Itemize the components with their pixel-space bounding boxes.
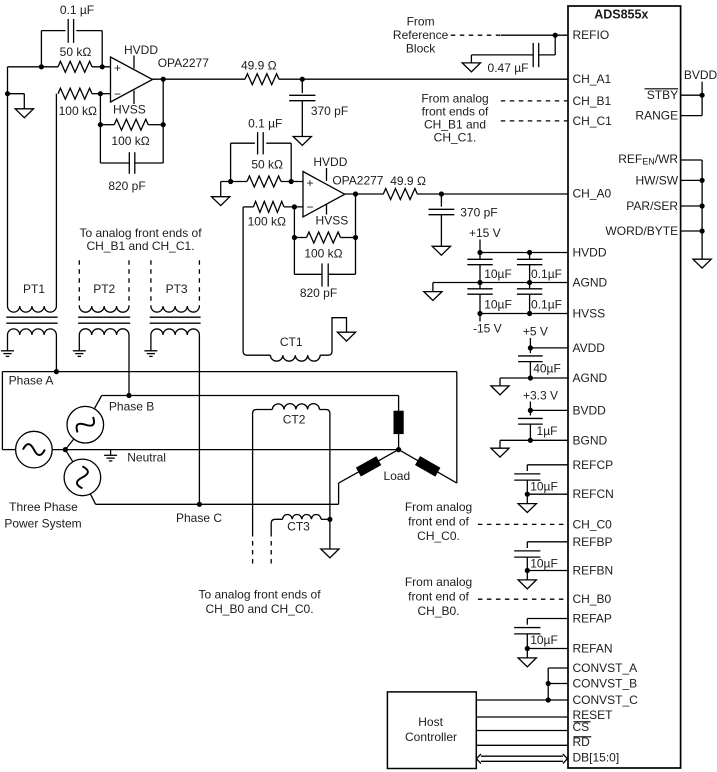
svg-text:Power System: Power System — [4, 517, 81, 531]
svg-text:OPA2277: OPA2277 — [158, 56, 209, 70]
svg-text:REFCN: REFCN — [573, 487, 614, 501]
svg-text:HVSS: HVSS — [316, 214, 349, 228]
svg-text:+: + — [306, 176, 313, 190]
svg-text:+: + — [114, 61, 121, 75]
svg-text:CH_C0.: CH_C0. — [417, 529, 460, 543]
svg-text:370 pF: 370 pF — [311, 104, 348, 118]
svg-text:From analog: From analog — [421, 92, 488, 106]
svg-text:CONVST_A: CONVST_A — [573, 661, 638, 675]
svg-text:10µF: 10µF — [530, 556, 558, 570]
svg-text:Load: Load — [383, 469, 410, 483]
svg-text:49.9 Ω: 49.9 Ω — [241, 59, 277, 73]
svg-text:HVSS: HVSS — [573, 307, 606, 321]
svg-text:50 kΩ: 50 kΩ — [251, 158, 283, 172]
svg-text:CH_A1: CH_A1 — [573, 72, 612, 86]
svg-text:From analog: From analog — [405, 500, 472, 514]
svg-text:CONVST_B: CONVST_B — [573, 677, 638, 691]
svg-text:To analog front ends of: To analog front ends of — [198, 587, 321, 601]
svg-text:Phase C: Phase C — [176, 511, 222, 525]
svg-text:REFBP: REFBP — [573, 535, 613, 549]
svg-text:PT3: PT3 — [166, 282, 188, 296]
svg-text:RANGE: RANGE — [635, 109, 678, 123]
svg-text:From: From — [407, 14, 435, 28]
svg-text:CH_B1 and CH_C1.: CH_B1 and CH_C1. — [86, 239, 194, 253]
svg-text:Three Phase: Three Phase — [9, 500, 78, 514]
svg-text:100 kΩ: 100 kΩ — [111, 134, 149, 148]
svg-text:Phase B: Phase B — [109, 400, 154, 414]
svg-text:AGND: AGND — [573, 371, 608, 385]
svg-text:−: − — [306, 200, 313, 214]
svg-text:100 kΩ: 100 kΩ — [304, 246, 342, 260]
svg-text:820 pF: 820 pF — [300, 286, 337, 300]
svg-text:50 kΩ: 50 kΩ — [60, 45, 92, 59]
svg-text:HVDD: HVDD — [573, 246, 607, 260]
svg-text:100 kΩ: 100 kΩ — [59, 104, 97, 118]
svg-text:REFCP: REFCP — [573, 458, 614, 472]
svg-text:CH_C1.: CH_C1. — [434, 130, 477, 144]
svg-text:Neutral: Neutral — [127, 450, 166, 464]
svg-text:CH_B0.: CH_B0. — [417, 604, 459, 618]
svg-text:REFIO: REFIO — [573, 28, 610, 42]
svg-text:0.1µF: 0.1µF — [531, 298, 562, 312]
svg-text:CH_C1: CH_C1 — [573, 114, 613, 128]
svg-text:CT1: CT1 — [280, 335, 303, 349]
svg-text:+15 V: +15 V — [469, 226, 501, 240]
svg-text:Block: Block — [406, 41, 436, 55]
svg-text:0.47 µF: 0.47 µF — [488, 61, 529, 75]
svg-text:Reference: Reference — [393, 28, 449, 42]
svg-text:100 kΩ: 100 kΩ — [248, 215, 286, 229]
svg-text:49.9 Ω: 49.9 Ω — [390, 174, 426, 188]
svg-text:REFBN: REFBN — [573, 564, 614, 578]
svg-text:WORD/BYTE: WORD/BYTE — [605, 224, 678, 238]
svg-text:370 pF: 370 pF — [460, 205, 497, 219]
svg-text:HW/SW: HW/SW — [635, 173, 678, 187]
svg-text:CH_B1 and: CH_B1 and — [424, 117, 486, 131]
svg-text:CH_B1: CH_B1 — [573, 94, 612, 108]
svg-text:CT2: CT2 — [283, 413, 306, 427]
svg-text:Phase A: Phase A — [9, 373, 54, 387]
svg-text:10µF: 10µF — [530, 479, 558, 493]
svg-text:10µF: 10µF — [484, 267, 512, 281]
svg-text:PT1: PT1 — [23, 282, 45, 296]
svg-text:STBY: STBY — [647, 88, 678, 102]
svg-text:front end of: front end of — [408, 589, 469, 603]
svg-text:−: − — [114, 87, 121, 101]
svg-text:OPA2277: OPA2277 — [332, 173, 383, 187]
svg-text:HVSS: HVSS — [113, 103, 146, 117]
svg-text:820 pF: 820 pF — [108, 179, 145, 193]
svg-text:REFAP: REFAP — [573, 612, 612, 626]
svg-text:REFAN: REFAN — [573, 642, 613, 656]
svg-text:HVDD: HVDD — [313, 155, 347, 169]
svg-text:CH_A0: CH_A0 — [573, 187, 612, 201]
svg-text:BVDD: BVDD — [684, 68, 717, 82]
svg-text:ADS855x: ADS855x — [594, 8, 648, 22]
svg-text:Host: Host — [418, 715, 443, 729]
svg-text:HVDD: HVDD — [124, 43, 158, 57]
svg-text:40µF: 40µF — [533, 361, 561, 375]
svg-text:0.1 µF: 0.1 µF — [248, 117, 282, 131]
svg-text:From analog: From analog — [405, 575, 472, 589]
svg-text:front end of: front end of — [408, 515, 469, 529]
svg-text:DB[15:0]: DB[15:0] — [573, 751, 620, 765]
svg-text:1µF: 1µF — [537, 424, 558, 438]
svg-text:CONVST_C: CONVST_C — [573, 693, 639, 707]
svg-text:BGND: BGND — [573, 433, 608, 447]
svg-text:10µF: 10µF — [530, 633, 558, 647]
svg-text:+3.3 V: +3.3 V — [523, 388, 558, 402]
svg-text:+5 V: +5 V — [523, 325, 548, 339]
svg-text:Controller: Controller — [405, 730, 457, 744]
svg-text:-15 V: -15 V — [473, 321, 502, 335]
svg-text:CT3: CT3 — [287, 520, 310, 534]
svg-text:CH_B0: CH_B0 — [573, 592, 612, 606]
svg-text:CH_B0 and CH_C0.: CH_B0 and CH_C0. — [205, 602, 313, 616]
svg-text:0.1 µF: 0.1 µF — [60, 3, 94, 17]
svg-text:CH_C0: CH_C0 — [573, 517, 613, 531]
svg-text:PT2: PT2 — [93, 282, 115, 296]
svg-text:AGND: AGND — [573, 276, 608, 290]
svg-text:10µF: 10µF — [484, 298, 512, 312]
svg-text:front ends of: front ends of — [422, 105, 489, 119]
svg-text:AVDD: AVDD — [573, 341, 606, 355]
svg-text:PAR/SER: PAR/SER — [626, 199, 678, 213]
svg-text:BVDD: BVDD — [573, 403, 607, 417]
svg-text:0.1µF: 0.1µF — [531, 267, 562, 281]
